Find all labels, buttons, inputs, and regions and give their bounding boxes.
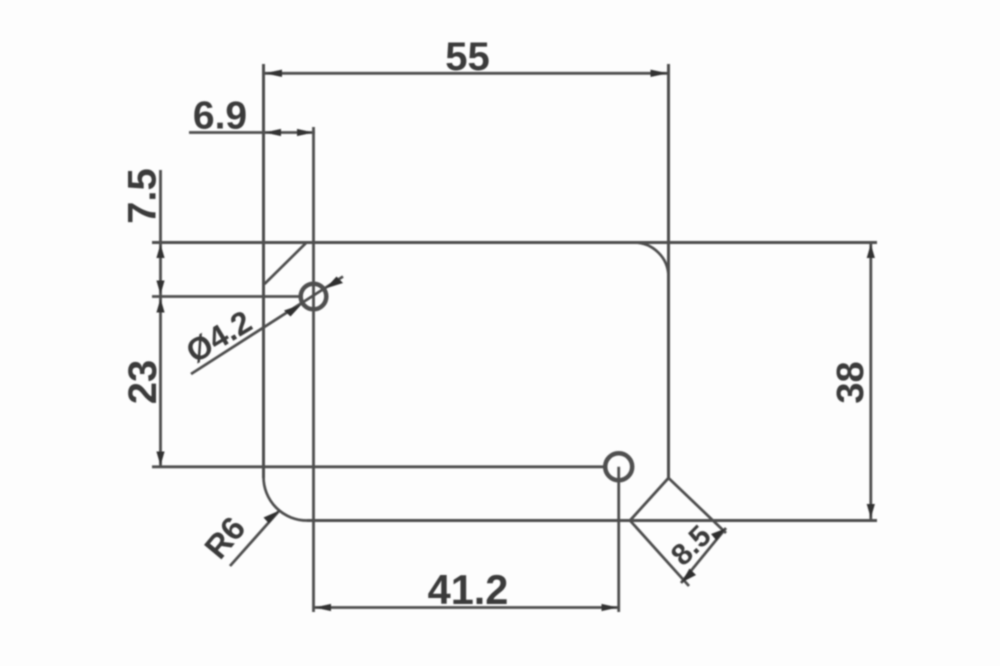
dimension line 7.5 and 23 (shared vertical) — [159, 170, 162, 467]
plate bottom edge with right extension — [307, 519, 877, 522]
plate right edge with top extension — [667, 64, 670, 478]
svg-text:38: 38 — [830, 361, 872, 403]
centerline horizontal lower hole — [152, 465, 604, 468]
plate corner chamfer bottom-right — [630, 478, 669, 521]
leader R6 — [230, 512, 279, 567]
centerline horizontal upper hole — [152, 295, 301, 298]
centerline vertical lower hole — [617, 467, 620, 612]
dimension 55 line — [264, 72, 669, 75]
svg-text:55: 55 — [445, 35, 490, 79]
svg-text:R6: R6 — [197, 510, 252, 566]
svg-text:Ø4.2: Ø4.2 — [180, 303, 258, 370]
svg-text:23: 23 — [121, 360, 165, 405]
svg-text:7.5: 7.5 — [121, 168, 165, 224]
centerline vertical upper hole — [312, 127, 315, 612]
chamfer extension line 1 — [669, 478, 727, 533]
plate left edge with top extension — [262, 64, 265, 478]
hole upper (diameter 4.2) — [301, 284, 327, 310]
chamfer extension line 2 — [630, 521, 689, 587]
dimension 41.2 line — [314, 606, 619, 609]
svg-text:6.9: 6.9 — [193, 95, 247, 138]
dimension 38 line — [869, 243, 872, 519]
plate corner radius bottom-left — [264, 477, 308, 521]
dimension 6.9 line — [189, 131, 315, 134]
svg-text:41.2: 41.2 — [428, 566, 509, 613]
leader diameter 4.2 — [191, 277, 343, 375]
dimension 8.5 line — [681, 528, 726, 583]
plate corner top-left (nearly straight round) — [265, 243, 307, 285]
plate top edge with extensions — [152, 241, 877, 244]
hole lower — [605, 453, 632, 480]
plate corner radius top-right — [634, 243, 669, 277]
svg-text:8.5: 8.5 — [665, 519, 718, 572]
